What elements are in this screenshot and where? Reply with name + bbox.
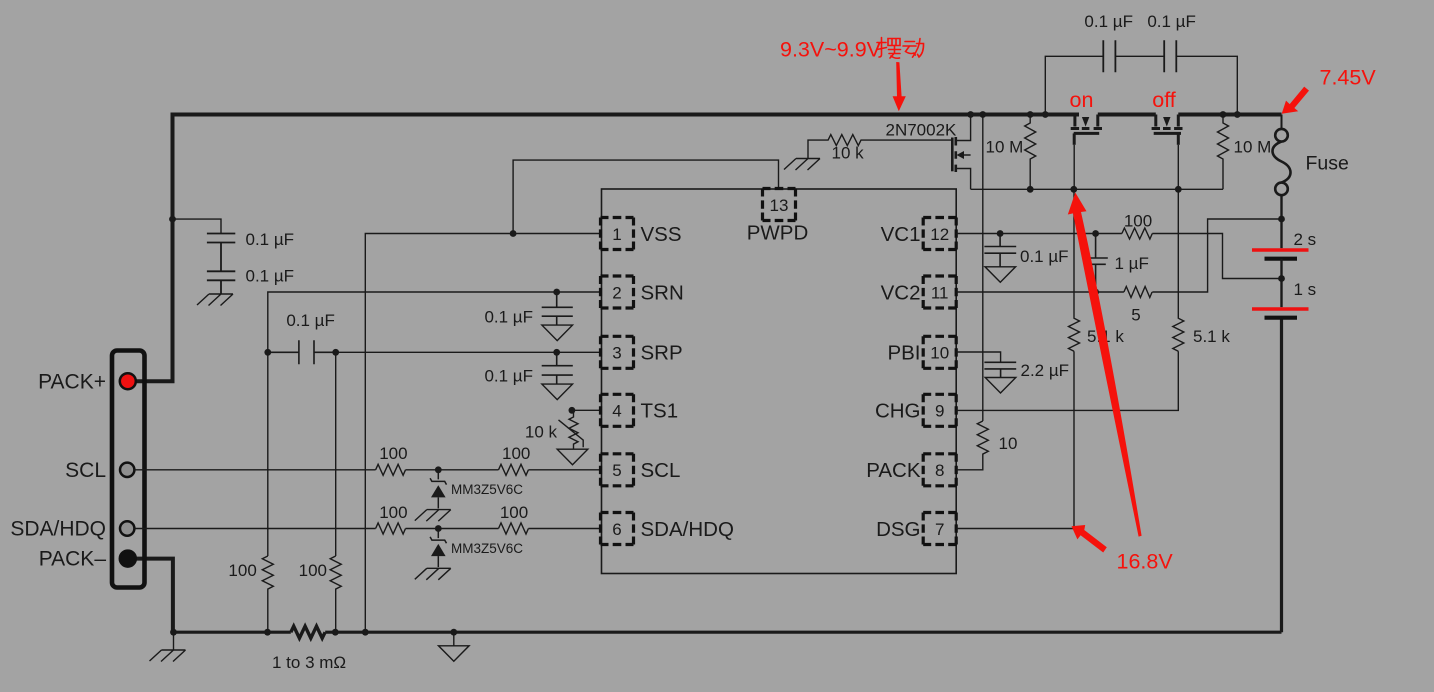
svg-text:PBI: PBI (887, 342, 920, 365)
svg-text:TS1: TS1 (641, 400, 679, 423)
svg-text:SRN: SRN (641, 281, 684, 304)
wire Q1 gate down to gate net (1073, 145, 1075, 190)
node dot 1uF bottom (1092, 289, 1099, 296)
capacitor 0.1uF top right (1164, 40, 1176, 72)
svg-text:PACK–: PACK– (39, 548, 107, 571)
pin SCL circle (120, 463, 134, 477)
annotation arrow 7.45V to rail corner (red) (1282, 87, 1309, 114)
resistor 5 on VC2 (1124, 287, 1152, 298)
pin 13 box (763, 189, 796, 221)
capacitor 0.1uF series between SRN and SRP branches (268, 340, 336, 364)
svg-text:100: 100 (228, 561, 256, 580)
wire PACK branch vertical from rail (982, 115, 984, 422)
svg-text:MM3Z5V6C: MM3Z5V6C (451, 541, 523, 556)
svg-text:1 to 3 mΩ: 1 to 3 mΩ (272, 653, 346, 672)
svg-text:13: 13 (770, 196, 789, 215)
svg-text:0.1 µF: 0.1 µF (246, 267, 295, 286)
svg-text:0.1 µF: 0.1 µF (246, 230, 295, 249)
ground chassis at bottom-left rail (173, 632, 175, 649)
wire SDA from connector to first resistor (134, 528, 376, 530)
svg-text:10 M: 10 M (986, 138, 1024, 157)
annotation arrow 16.8V to DSG corner (red) (1072, 525, 1107, 553)
capacitor 0.1uF at SRN (542, 292, 573, 325)
pin 9 box (923, 394, 956, 426)
svg-text:11: 11 (931, 283, 949, 302)
ground chassis 10k (784, 159, 820, 171)
resistor 100 on VC1 (1122, 228, 1152, 239)
node dot Q2 gate at gate net (1175, 186, 1182, 193)
pin 5 box (601, 454, 634, 486)
svg-text:10: 10 (930, 344, 949, 363)
svg-text:100: 100 (500, 503, 528, 522)
svg-text:on: on (1070, 88, 1094, 112)
svg-text:DSG: DSG (876, 518, 920, 541)
wire Q2 gate down to gate net (1177, 145, 1179, 190)
pin 7 box (923, 513, 956, 545)
node dot 10M left at gate net (1027, 186, 1034, 193)
node dot SRN branch at rail (264, 629, 271, 636)
node dot on PACK+ rail for decoupling stack (169, 216, 176, 223)
svg-text:1 s: 1 s (1294, 280, 1317, 299)
resistor 10k at 2N7002K gate with ground (808, 135, 952, 158)
node dot PACK branch at rail (979, 111, 986, 118)
battery 1s positive plate (red) (1252, 307, 1309, 311)
pin 11 box (923, 276, 956, 308)
node dot SRP branch at rail (332, 629, 339, 636)
svg-text:PACK+: PACK+ (38, 371, 106, 394)
wire rail to decoupling capacitor stack (173, 219, 222, 233)
node dot cap loop left at rail (1042, 111, 1049, 118)
node dot battery middle (1278, 275, 1285, 282)
wire PACK- to bottom ground rail (136, 559, 173, 633)
wire VSS to PWPD pin13 (513, 160, 778, 233)
transistor Q2 discharge FET (off) (1152, 115, 1183, 145)
pin 2 box (601, 276, 634, 308)
pin 1 box (601, 218, 634, 250)
capacitor 0.1uF at SRP (542, 352, 573, 384)
ground chassis below left stack (197, 294, 233, 306)
svg-text:100: 100 (502, 444, 530, 463)
capacitor 2.2uF at PBI (984, 362, 1016, 377)
svg-text:100: 100 (379, 444, 407, 463)
pin 10 box (923, 336, 956, 368)
ground chassis SCL zener (415, 510, 451, 521)
node dot VC1 bypass cap (997, 230, 1004, 237)
wire DSG row to Q1 gate resistor (957, 351, 1075, 528)
svg-text:off: off (1152, 88, 1176, 112)
diode zener MM3Z5V6C on SCL (430, 470, 446, 509)
wire CHG row to Q2 gate resistor (957, 351, 1179, 410)
wire gate-drive net from 2N7002K source to right (971, 188, 1223, 190)
svg-text:100: 100 (379, 503, 407, 522)
resistor 100 SDA left (376, 523, 406, 534)
annotation hanzi bai-dong (red strokes) (877, 38, 924, 59)
resistor 10M left (1025, 115, 1036, 190)
resistor 5.1k left (1069, 189, 1080, 351)
ground triangle SRN cap (542, 325, 573, 341)
node dot 1uF top (1092, 230, 1099, 237)
capacitor 1uF between VC1 and VC2 (1084, 234, 1108, 293)
svg-text:7.45V: 7.45V (1320, 66, 1377, 90)
thermistor arrow TS1 (559, 420, 584, 447)
svg-text:SDA/HDQ: SDA/HDQ (10, 518, 106, 541)
pin 12 box (923, 218, 956, 250)
svg-text:6: 6 (612, 520, 621, 539)
node dot TS1 (569, 407, 576, 414)
ground chassis SDA zener (415, 568, 451, 580)
connector J1 body (112, 351, 145, 588)
pin 8 box (923, 454, 956, 486)
svg-text:VC2: VC2 (881, 281, 921, 304)
node dot 10M right at rail (1220, 111, 1227, 118)
resistor 100 SCL right (499, 464, 529, 475)
svg-text:4: 4 (612, 402, 621, 421)
pin PACK- circle (120, 551, 136, 567)
svg-text:10 k: 10 k (525, 423, 558, 442)
svg-text:3: 3 (612, 344, 621, 363)
wire VSS pin1 row to bottom rail (365, 234, 600, 633)
svg-text:0.1 µF: 0.1 µF (484, 308, 533, 327)
wire between cells (1280, 259, 1282, 308)
node dot VSS wire at bottom rail (362, 629, 369, 636)
node dot bottom rail at PACK- (170, 629, 177, 636)
pin 6 box (601, 513, 634, 545)
resistor 10M right (1218, 115, 1229, 190)
svg-text:100: 100 (299, 561, 327, 580)
svg-text:10 k: 10 k (832, 144, 865, 163)
node dot SRN bypass cap (553, 289, 560, 296)
ground triangle TS1 (557, 449, 588, 465)
resistor 10 to PACK pin (957, 421, 989, 470)
svg-text:2 s: 2 s (1294, 230, 1317, 249)
pin 3 box (601, 336, 634, 368)
pin 4 box (601, 394, 634, 426)
annotation long pointer to gate net node (red) (1068, 193, 1142, 537)
wire VC1 to battery middle (1152, 234, 1281, 279)
svg-text:5.1 k: 5.1 k (1193, 327, 1230, 346)
ground triangle VC1 cap (985, 267, 1016, 283)
svg-text:SCL: SCL (641, 459, 681, 482)
battery 2s negative plate (1265, 257, 1298, 261)
svg-text:2.2 µF: 2.2 µF (1021, 361, 1070, 380)
svg-text:0.1 µF: 0.1 µF (484, 367, 533, 386)
wire SCL to pin5 (528, 469, 600, 471)
wire SDA to pin6 (528, 528, 600, 530)
wire SDA mid (406, 528, 499, 530)
svg-text:0.1 µF: 0.1 µF (286, 311, 335, 330)
wire VC2 to battery top (1152, 219, 1281, 292)
resistor 100 SCL left (376, 464, 406, 475)
wire top rail segment between Q-on and Q-off (1098, 113, 1156, 117)
svg-text:SDA/HDQ: SDA/HDQ (641, 518, 734, 541)
transistor Q1 charge FET (on) (1071, 115, 1102, 145)
node dot VSS row PWPD branch (510, 230, 517, 237)
transistor Q3 2N7002K (952, 115, 970, 190)
svg-text:9.3V~9.9V: 9.3V~9.9V (780, 38, 882, 62)
wire bottom ground rail left of shunt (171, 631, 290, 634)
annotation arrow down to rail (red) (893, 62, 906, 111)
wire bottom ground rail right of shunt (325, 631, 1281, 634)
svg-text:5: 5 (1131, 306, 1140, 325)
svg-text:8: 8 (935, 461, 944, 480)
node dot SRP series cap right (332, 349, 339, 356)
node dot bottom rail at ground triangle (450, 629, 457, 636)
resistor 100 below SRN branch (262, 556, 273, 632)
svg-text:1: 1 (612, 225, 621, 244)
node dot 2N7002K drain at rail (967, 111, 974, 118)
transistor Q2 body arrow (1163, 117, 1170, 127)
thermistor 10k at TS1 (569, 410, 578, 449)
svg-text:SCL: SCL (65, 459, 106, 482)
wire top rail segment Q-off to fuse corner (1178, 113, 1281, 117)
resistor 100 below SRP branch (330, 556, 341, 632)
node dot cap loop right at rail (1234, 111, 1241, 118)
wire SRP pin3 row (336, 352, 601, 556)
svg-text:MM3Z5V6C: MM3Z5V6C (451, 482, 523, 497)
transistor Q1 body arrow (1082, 117, 1089, 127)
node dot SCL zener (435, 466, 442, 473)
svg-text:0.1 µF: 0.1 µF (1084, 12, 1133, 31)
svg-text:0.1 µF: 0.1 µF (1147, 12, 1196, 31)
svg-text:VSS: VSS (641, 223, 682, 246)
svg-text:5: 5 (612, 461, 621, 480)
svg-text:16.8V: 16.8V (1117, 550, 1174, 574)
node dot battery top (1278, 216, 1285, 223)
capacitor 0.1uF lower of left stack (207, 271, 235, 293)
battery cell 2s (1280, 195, 1282, 248)
capacitor 0.1uF top left (1103, 40, 1115, 72)
resistor shunt 1 to 3 mOhm (291, 626, 325, 638)
wire VC1 row (957, 233, 1122, 235)
capacitor 0.1uF upper of left stack (207, 234, 235, 272)
wire PBI row (957, 352, 1001, 362)
wire PACK+ rail: connector to top-left corner and top horizontal rail (136, 115, 1079, 382)
wire top capacitor loop (1045, 56, 1237, 114)
svg-text:12: 12 (930, 225, 949, 244)
wire TS1 pin4 row (572, 409, 601, 411)
svg-text:10 M: 10 M (1234, 138, 1272, 157)
wire battery negative vertical right edge (1280, 318, 1283, 633)
node dot SRN series cap left (264, 349, 271, 356)
wire SCL mid (406, 469, 499, 471)
ground triangle on bottom rail (453, 632, 455, 645)
resistor 100 SDA right (499, 523, 529, 534)
pin PACK+ circle (120, 373, 136, 389)
svg-text:Fuse: Fuse (1306, 153, 1349, 175)
ground triangle PBI cap (985, 378, 1016, 394)
svg-text:PACK: PACK (866, 459, 921, 482)
wire VC2 row (957, 291, 1124, 293)
ground triangle SRP cap (542, 384, 573, 400)
svg-text:10: 10 (999, 434, 1018, 453)
svg-text:PWPD: PWPD (747, 222, 809, 245)
svg-text:CHG: CHG (875, 400, 921, 423)
wire SRN pin2 row (268, 292, 601, 556)
svg-text:100: 100 (1124, 212, 1152, 231)
pin SDA/HDQ circle (120, 521, 134, 535)
node dot 10M left at rail (1027, 111, 1034, 118)
svg-text:2N7002K: 2N7002K (886, 121, 958, 140)
capacitor 0.1uF at VC1 (984, 234, 1016, 267)
svg-text:1 µF: 1 µF (1115, 254, 1149, 273)
battery 2s positive plate (red) (1252, 248, 1309, 252)
node dot SRP bypass cap (553, 349, 560, 356)
svg-text:VC1: VC1 (881, 223, 921, 246)
svg-text:SRP: SRP (641, 342, 683, 365)
IC U1 body (602, 189, 957, 574)
wire SCL from connector to first resistor (134, 469, 376, 471)
svg-text:0.1 µF: 0.1 µF (1020, 247, 1069, 266)
node dot Q1 gate at gate net (1070, 186, 1077, 193)
battery 1s negative plate (1265, 316, 1298, 320)
svg-text:9: 9 (935, 402, 944, 421)
diode zener MM3Z5V6C on SDA (430, 529, 446, 568)
svg-text:2: 2 (612, 283, 621, 302)
node dot SDA zener (435, 525, 442, 532)
fuse F1 (1272, 115, 1290, 196)
svg-text:7: 7 (935, 520, 944, 539)
resistor 5.1k right (1173, 189, 1184, 351)
